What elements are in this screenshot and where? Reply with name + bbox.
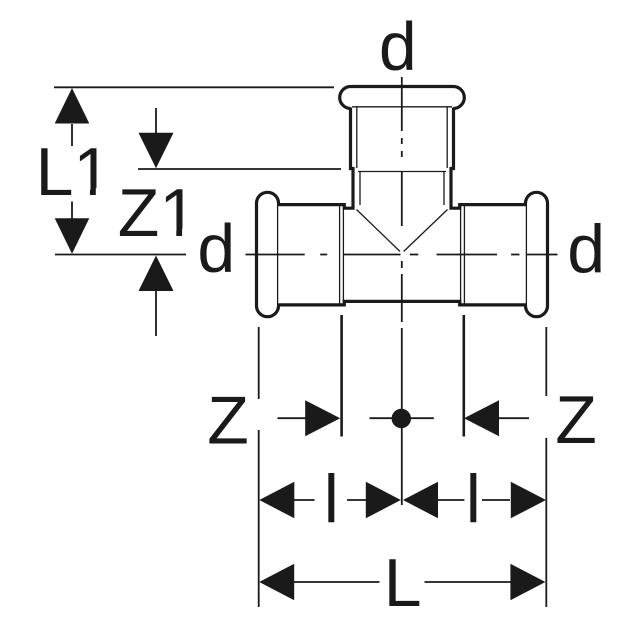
bead left socket	[257, 192, 279, 316]
fitting outline upper right: branch right wall, run top, step, socket top	[451, 108, 527, 209]
arrowhead L left (points left)	[259, 564, 294, 601]
svg-text:L: L	[384, 545, 422, 621]
Z dimension line through dot	[370, 417, 434, 419]
fitting outline upper left: socket top, step, run top, branch left wall	[277, 108, 353, 209]
mouth line left socket	[277, 206, 279, 304]
extension line right run end	[545, 327, 547, 607]
svg-text:d: d	[379, 8, 417, 84]
extension line branch bead right	[462, 315, 465, 437]
arrowhead Z1 down	[139, 133, 174, 169]
arrowhead l right (points right)	[511, 482, 546, 519]
extension line top (L1 upper)	[54, 86, 334, 88]
branch socket inner walls	[357, 108, 447, 169]
svg-text:Z: Z	[555, 382, 597, 458]
fitting outline bottom: sockets and run	[277, 301, 527, 305]
arrowhead Z1 up	[139, 256, 174, 292]
svg-text:d: d	[567, 211, 605, 287]
svg-text:L1: L1	[36, 134, 112, 210]
l dimension line right half	[437, 499, 510, 501]
diagonal left	[357, 210, 401, 252]
centerline vertical branch axis	[401, 77, 403, 505]
svg-text:l: l	[466, 461, 481, 537]
branch socket stop line	[358, 171, 446, 173]
arrowhead L right (points right)	[510, 564, 545, 601]
L dimension line	[294, 581, 511, 583]
Z dimension line right	[499, 417, 530, 419]
mouth line right socket	[525, 206, 527, 304]
socket stop rings right	[461, 206, 465, 305]
extension line branch socket depth (Z1)	[138, 168, 341, 170]
bead right socket	[526, 192, 548, 316]
arrowhead l left (points left)	[259, 482, 294, 519]
Z dimension line left	[278, 417, 307, 419]
l dimension line left half	[294, 499, 367, 501]
centerline horizontal run axis	[55, 254, 558, 256]
Z1 dimension line shaft	[155, 108, 157, 336]
socket stop rings left	[340, 206, 344, 305]
mouth line top socket	[352, 106, 452, 108]
arrowhead Z left (points right)	[305, 400, 340, 436]
center dot node	[392, 409, 411, 428]
svg-text:d: d	[197, 210, 235, 286]
extension line left run end	[258, 327, 260, 607]
arrowhead l inner right (points left)	[403, 482, 438, 519]
svg-text:Z: Z	[207, 383, 249, 459]
svg-text:Z1: Z1	[118, 175, 197, 251]
arrowhead L1 up	[55, 88, 90, 124]
arrowhead L1 down	[55, 218, 90, 254]
L1 dimension line shaft	[71, 124, 73, 219]
extension line branch bead left	[340, 315, 343, 437]
svg-text:l: l	[324, 461, 339, 537]
arrowhead Z right (points left)	[464, 400, 499, 436]
branch tube inner walls	[360, 172, 444, 206]
diagonal right	[404, 210, 448, 252]
arrowhead l inner (points right)	[366, 482, 401, 519]
bead top branch socket	[340, 87, 465, 109]
